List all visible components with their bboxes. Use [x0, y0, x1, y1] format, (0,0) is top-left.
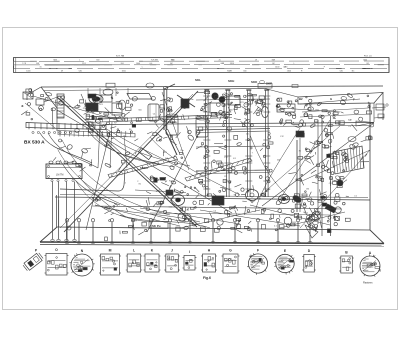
lower right bundle	[305, 195, 350, 238]
wiring harness left	[88, 128, 191, 171]
detail H	[201, 249, 217, 273]
svg-text:LW: LW	[229, 70, 232, 72]
svg-text:F.6.1 L.6: F.6.1 L.6	[364, 55, 373, 57]
svg-text:L: L	[142, 67, 143, 69]
tube socket V1	[172, 195, 185, 206]
label SK Pu	[149, 222, 168, 229]
right diagonal wires	[262, 123, 374, 206]
svg-text:1600: 1600	[363, 60, 367, 62]
svg-text:B7: B7	[251, 98, 255, 102]
detail O	[45, 248, 69, 275]
svg-text:SKH: SKH	[228, 79, 234, 83]
chassis front apron top	[57, 227, 370, 230]
detail I	[183, 250, 197, 270]
svg-text:22n: 22n	[83, 108, 86, 110]
oscillator coil cans	[147, 96, 208, 142]
left wall edge	[56, 195, 58, 227]
chassis right rear flap	[298, 93, 383, 105]
detail K	[144, 249, 161, 273]
svg-text:G: G	[330, 97, 332, 101]
svg-text:1600: 1600	[287, 70, 291, 72]
svg-text:1000: 1000	[122, 70, 126, 72]
svg-text:L: L	[294, 63, 295, 65]
vertical wire pair	[296, 140, 298, 212]
detail M	[99, 249, 121, 276]
svg-text:J: J	[171, 249, 173, 253]
right rear component group	[276, 93, 374, 131]
filter choke	[212, 196, 224, 205]
coil comb bar	[58, 131, 135, 138]
tube socket V3	[279, 195, 290, 204]
dial cord run 1	[57, 97, 197, 227]
chassis left corner	[27, 87, 41, 100]
chassis slab	[127, 94, 152, 100]
svg-text:SKBeL: SKBeL	[168, 120, 177, 124]
grommet G1	[312, 212, 321, 221]
IF transformer block	[181, 91, 264, 129]
waveband switch bank	[195, 90, 273, 199]
svg-text:L: L	[133, 249, 135, 253]
svg-text:BX 530 A: BX 530 A	[24, 140, 45, 146]
dial cord run 5	[162, 92, 189, 170]
svg-text:N.R.NM: N.R.NM	[151, 60, 158, 62]
svg-text:MW: MW	[272, 60, 276, 62]
dial cord run 2	[64, 91, 198, 232]
apron crossing wires	[95, 205, 345, 228]
svg-text:O: O	[55, 248, 58, 252]
apron left slant	[40, 227, 57, 242]
tilted resistor	[138, 148, 151, 160]
output transformer coil	[333, 146, 364, 174]
grommet G2	[284, 217, 292, 225]
svg-text:19: 19	[255, 60, 257, 62]
chassis right front edge	[369, 103, 371, 230]
mid deck parts	[164, 177, 166, 180]
detail L	[126, 249, 142, 273]
svg-text:1400: 1400	[275, 67, 279, 69]
svg-text:22n: 22n	[246, 133, 249, 135]
svg-text:1M: 1M	[306, 188, 309, 190]
terminal strip	[26, 123, 106, 169]
chassis rear edge	[41, 86, 383, 87]
svg-text:1600: 1600	[136, 63, 140, 65]
tuning gang assembly	[74, 88, 141, 135]
svg-text:F: F	[257, 249, 259, 253]
svg-text:N. R. NM: N. R. NM	[116, 56, 125, 58]
detail F	[247, 249, 268, 275]
svg-text:300: 300	[243, 70, 246, 72]
transformer mounting legs	[52, 182, 54, 240]
svg-text:1200: 1200	[230, 63, 234, 65]
svg-text:540: 540	[79, 70, 82, 72]
detail A	[360, 251, 381, 277]
chassis rear inner edge	[44, 89, 265, 91]
chassis deck front edge	[55, 197, 370, 200]
gang mounting plate	[85, 100, 232, 123]
chassis front apron base	[40, 242, 384, 244]
capsule trimmer	[262, 107, 269, 118]
dial scale assembly	[13, 55, 389, 72]
svg-text:SK Pu: SK Pu	[152, 224, 161, 228]
left deck group	[58, 140, 185, 241]
svg-text:I: I	[189, 250, 190, 254]
svg-text:31: 31	[40, 67, 42, 69]
component value labels	[83, 99, 371, 228]
svg-text:LM 7M: LM 7M	[56, 174, 63, 177]
right wall components	[372, 104, 388, 118]
antenna bracket assembly	[21, 89, 120, 128]
svg-text:400: 400	[284, 67, 287, 69]
diagonal strut	[177, 95, 195, 107]
dial cord pulley	[59, 101, 63, 105]
svg-text:11.8: 11.8	[82, 63, 86, 65]
svg-text:17.8: 17.8	[22, 63, 26, 65]
svg-text:B2: B2	[299, 97, 303, 101]
chassis mid shelf	[105, 123, 374, 125]
plate support legs	[98, 122, 127, 168]
detail B	[339, 251, 354, 274]
transformer wires	[80, 178, 126, 217]
svg-text:SKK: SKK	[251, 80, 258, 84]
grommet G3	[178, 213, 186, 221]
svg-text:SW: SW	[36, 63, 39, 65]
hookup wires	[105, 128, 300, 212]
svg-text:22n: 22n	[180, 150, 183, 152]
detail E	[274, 249, 294, 274]
svg-text:L: L	[79, 60, 80, 62]
center deck component group	[92, 186, 342, 232]
svg-text:Rastens: Rastens	[363, 281, 373, 285]
svg-text:49: 49	[61, 70, 63, 72]
detail G	[222, 249, 240, 274]
svg-text:Fig.6: Fig.6	[203, 276, 211, 280]
detail P	[35, 249, 38, 253]
left chassis wall group	[53, 139, 92, 171]
apron right slant	[370, 230, 384, 244]
dial cord run 4	[147, 131, 200, 232]
svg-text:M: M	[109, 249, 112, 253]
tube socket V2	[246, 190, 259, 201]
svg-text:19: 19	[222, 63, 224, 65]
svg-text:1000: 1000	[26, 70, 30, 72]
detail J	[164, 249, 180, 273]
chassis standoff feet	[65, 219, 312, 244]
left pointer rail	[108, 157, 178, 178]
dial cord run 3	[57, 110, 232, 213]
electrolytic capacitor C50	[317, 120, 319, 224]
svg-text:47k: 47k	[238, 99, 241, 101]
power transformer	[46, 161, 186, 241]
rear apron components	[106, 81, 298, 89]
svg-text:SKF: SKF	[266, 82, 272, 86]
svg-text:G: G	[229, 249, 232, 253]
detail N	[70, 249, 95, 276]
svg-text:540: 540	[340, 70, 343, 72]
svg-text:25: 25	[219, 60, 221, 62]
svg-text:300: 300	[96, 60, 99, 62]
svg-text:22n: 22n	[307, 222, 310, 224]
svg-text:800: 800	[172, 60, 175, 62]
pointer rail	[185, 158, 252, 181]
right component group	[282, 120, 372, 206]
svg-text:200: 200	[121, 63, 124, 65]
dial pointer pillar	[163, 84, 179, 155]
svg-text:SKL: SKL	[195, 78, 201, 82]
detail D	[302, 249, 316, 272]
